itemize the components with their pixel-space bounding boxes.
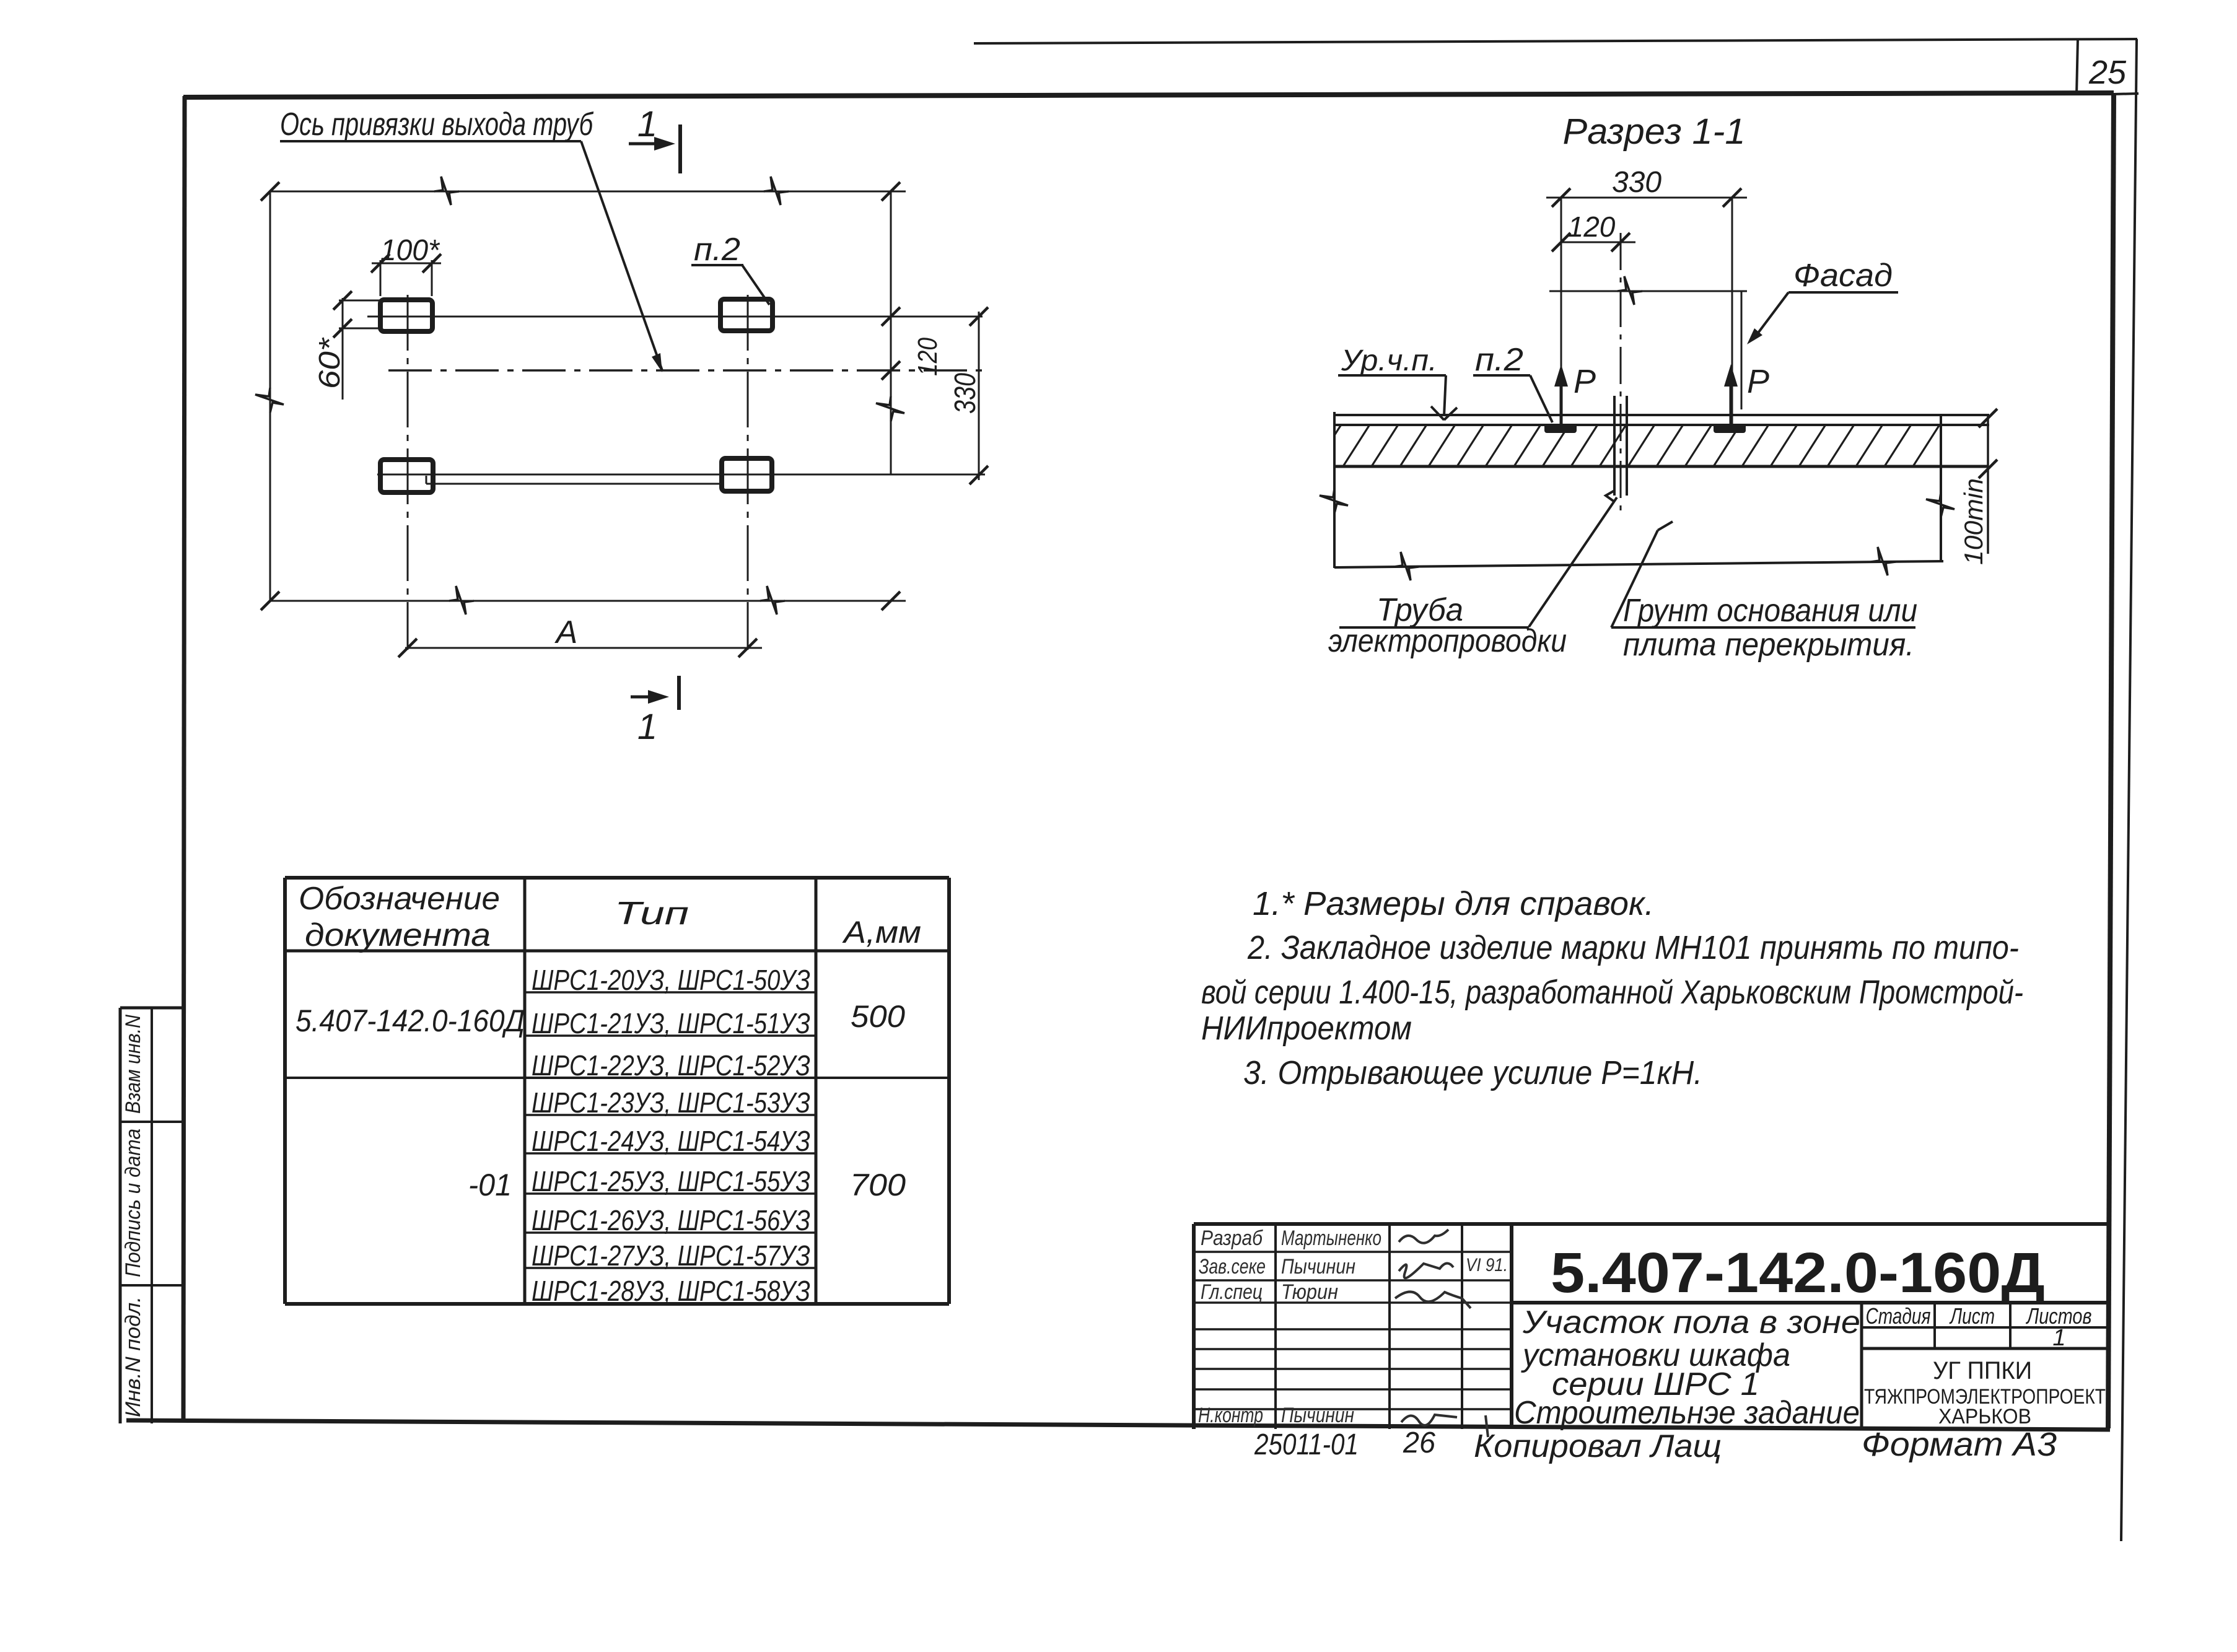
svg-text:-01: -01 — [468, 1168, 512, 1202]
svg-text:Н.контр: Н.контр — [1198, 1404, 1263, 1427]
svg-text:Стадия: Стадия — [1866, 1303, 1931, 1329]
svg-text:Фасад: Фасад — [1793, 258, 1893, 294]
svg-text:ШРС1-28УЗ, ШРС1-58УЗ: ШРС1-28УЗ, ШРС1-58УЗ — [532, 1275, 810, 1307]
svg-text:Грунт основания или: Грунт основания или — [1623, 593, 1917, 629]
svg-text:VI 91.: VI 91. — [1466, 1255, 1508, 1275]
svg-text:Ур.ч.п.: Ур.ч.п. — [1341, 344, 1437, 377]
svg-text:Строительнэе задание: Строительнэе задание — [1514, 1395, 1860, 1431]
svg-text:НИИпроектом: НИИпроектом — [1201, 1010, 1412, 1047]
svg-text:вой серии 1.400-15, разработ: вой серии 1.400-15, разработанной Харько… — [1201, 974, 2023, 1011]
svg-text:Лист: Лист — [1949, 1303, 1995, 1329]
svg-text:Участок пола в зоне: Участок пола в зоне — [1522, 1305, 1860, 1340]
svg-text:ШРС1-24УЗ, ШРС1-54УЗ: ШРС1-24УЗ, ШРС1-54УЗ — [532, 1125, 810, 1157]
svg-text:п.2: п.2 — [1475, 342, 1523, 378]
svg-text:Пычинин: Пычинин — [1281, 1255, 1355, 1278]
svg-text:100min: 100min — [1959, 478, 1988, 565]
svg-text:5.407-142.0-160Д: 5.407-142.0-160Д — [295, 1003, 525, 1038]
svg-text:документа: документа — [305, 917, 491, 953]
svg-text:120: 120 — [913, 338, 943, 376]
svg-text:Тип: Тип — [615, 896, 689, 932]
svg-text:плита перекрытия.: плита перекрытия. — [1623, 627, 1914, 663]
svg-text:Тюрин: Тюрин — [1281, 1280, 1338, 1304]
svg-text:700: 700 — [850, 1168, 906, 1202]
svg-text:ШРС1-23УЗ, ШРС1-53УЗ: ШРС1-23УЗ, ШРС1-53УЗ — [532, 1086, 810, 1119]
svg-text:330: 330 — [949, 373, 982, 414]
svg-text:1: 1 — [637, 707, 657, 747]
svg-text:25: 25 — [2088, 54, 2127, 91]
svg-text:Р: Р — [1574, 363, 1596, 400]
svg-text:Гл.спец: Гл.спец — [1201, 1280, 1263, 1304]
svg-text:А,мм: А,мм — [842, 915, 921, 950]
svg-text:500: 500 — [851, 999, 905, 1034]
svg-text:УГ ППКИ: УГ ППКИ — [1933, 1357, 2032, 1384]
svg-text:ШРС1-25УЗ, ШРС1-55УЗ: ШРС1-25УЗ, ШРС1-55УЗ — [532, 1165, 810, 1197]
svg-text:1.* Размеры для справок.: 1.* Размеры для справок. — [1253, 885, 1654, 922]
svg-text:ШРС1-22УЗ, ШРС1-52УЗ: ШРС1-22УЗ, ШРС1-52УЗ — [532, 1049, 810, 1082]
svg-text:2. Закладное изделие марки: 2. Закладное изделие марки МН101 принять… — [1247, 929, 2019, 966]
svg-text:Зав.секе: Зав.секе — [1199, 1255, 1266, 1278]
svg-text:ШРС1-21УЗ, ШРС1-51УЗ: ШРС1-21УЗ, ШРС1-51УЗ — [532, 1007, 810, 1039]
svg-text:Р: Р — [1747, 363, 1769, 400]
svg-text:5.407-142.0-160Д: 5.407-142.0-160Д — [1551, 1241, 2045, 1305]
svg-text:Обозначение: Обозначение — [299, 881, 500, 917]
svg-text:Подпись и дата: Подпись и дата — [121, 1129, 145, 1277]
svg-text:Мартыненко: Мартыненко — [1281, 1226, 1381, 1250]
svg-text:Взам инв.N: Взам инв.N — [121, 1015, 145, 1114]
svg-text:25011-01: 25011-01 — [1254, 1428, 1359, 1461]
svg-text:Разраб: Разраб — [1201, 1226, 1264, 1250]
svg-text:электропроводки: электропроводки — [1328, 623, 1567, 659]
svg-text:п.2: п.2 — [694, 232, 740, 268]
svg-text:ШРС1-26УЗ, ШРС1-56УЗ: ШРС1-26УЗ, ШРС1-56УЗ — [532, 1204, 810, 1236]
svg-text:330: 330 — [1612, 166, 1661, 199]
svg-text:26: 26 — [1403, 1427, 1435, 1459]
svg-text:60*: 60* — [313, 338, 346, 389]
svg-text:3. Отрывающее усилие Р=1кН.: 3. Отрывающее усилие Р=1кН. — [1243, 1054, 1702, 1091]
svg-text:1: 1 — [2052, 1325, 2065, 1351]
svg-text:Копировал Лащ: Копировал Лащ — [1474, 1428, 1722, 1464]
svg-text:Пычинин: Пычинин — [1281, 1404, 1354, 1427]
svg-text:ШРС1-27УЗ, ШРС1-57УЗ: ШРС1-27УЗ, ШРС1-57УЗ — [532, 1239, 810, 1272]
svg-text:Разрез 1-1: Разрез 1-1 — [1563, 111, 1746, 152]
svg-text:Инв.N подл.: Инв.N подл. — [121, 1296, 145, 1417]
svg-text:ХАРЬКОВ: ХАРЬКОВ — [1938, 1405, 2031, 1428]
svg-text:120: 120 — [1568, 211, 1616, 243]
svg-text:ШРС1-20УЗ, ШРС1-50УЗ: ШРС1-20УЗ, ШРС1-50УЗ — [532, 964, 810, 996]
svg-text:Ось привязки выхода труб: Ось привязки выхода труб — [280, 107, 593, 142]
svg-text:Формат А3: Формат А3 — [1862, 1426, 2057, 1463]
svg-text:А: А — [554, 614, 578, 650]
